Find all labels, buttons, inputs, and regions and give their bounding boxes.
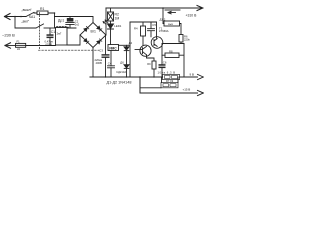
svg-text:1М: 1М: [115, 16, 120, 20]
svg-text:„выкл“: „выкл“: [22, 8, 33, 12]
svg-text:Д1-Д2 1N4148: Д1-Д2 1N4148: [107, 80, 132, 84]
svg-text:С4: С4: [108, 62, 112, 66]
svg-text:КТ969А: КТ969А: [159, 29, 169, 33]
svg-text:2н2: 2н2: [75, 23, 80, 27]
svg-text:2А: 2А: [17, 47, 20, 51]
svg-text:Д4: Д4: [129, 41, 133, 45]
svg-text:С6: С6: [163, 60, 167, 64]
svg-text:Др1: Др1: [58, 19, 64, 23]
svg-text:630 В: 630 В: [46, 43, 53, 46]
svg-text:220к: 220к: [184, 37, 190, 41]
svg-text:С1: С1: [51, 30, 55, 34]
svg-text:R7 C9: R7 C9: [166, 79, 174, 83]
svg-text:КД213А: КД213А: [117, 70, 127, 74]
svg-text:R9: R9: [147, 62, 151, 66]
svg-text:LED1: LED1: [114, 24, 121, 28]
svg-text:С3: С3: [99, 49, 103, 53]
svg-text:+310 В: +310 В: [186, 14, 198, 18]
svg-text:ИМС: ИМС: [109, 46, 117, 50]
svg-text:R8: R8: [169, 50, 173, 54]
svg-text:С5: С5: [152, 23, 156, 27]
svg-text:Д6: Д6: [120, 60, 124, 64]
svg-text:9 В: 9 В: [190, 73, 194, 77]
svg-text:„вкл“: „вкл“: [22, 20, 31, 24]
svg-text:Br1: Br1: [91, 29, 96, 33]
svg-text:R4: R4: [134, 27, 138, 31]
svg-text:10мк 6,3 В: 10мк 6,3 В: [158, 70, 176, 74]
svg-text:Д1.2: Д1.2: [160, 18, 166, 22]
svg-text:2мГ: 2мГ: [57, 32, 62, 36]
svg-text:~230 В: ~230 В: [2, 32, 15, 37]
svg-text:R1: R1: [40, 7, 44, 11]
svg-text:+15 В: +15 В: [183, 88, 191, 92]
svg-text:F1: F1: [17, 40, 21, 44]
svg-text:SA1: SA1: [29, 15, 36, 19]
svg-text:400В: 400В: [96, 61, 102, 65]
svg-text:вых: вых: [168, 23, 173, 26]
